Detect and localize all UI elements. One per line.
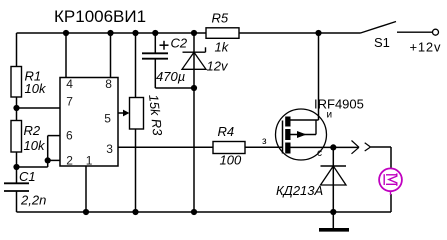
body line with P-channel arrow [291,134,317,136]
wire pin 1 to ground bus [85,166,87,212]
svg-text:КР1006ВИ1: КР1006ВИ1 [54,7,146,26]
svg-text:с: с [317,148,322,159]
svg-text:5: 5 [104,112,111,126]
wire C2 top lead [154,33,156,53]
channel segment middle [285,129,290,140]
transistor Q1 IRF4905 [262,97,364,161]
wire zener vertical branch [193,33,195,212]
wire pin6/pin2 vertical tie [47,136,49,167]
wire pin 8 to top bus [110,33,112,78]
svg-text:1k: 1k [215,40,230,55]
node R1/R2/pin7 [13,105,19,111]
svg-text:4: 4 [66,77,73,91]
svg-text:470µ: 470µ [156,69,185,84]
capacitor C2 electrolytic [142,36,188,85]
wire C1 bottom lead to ground bus [16,191,18,212]
wire pin 2 stub [48,159,60,161]
svg-text:R4: R4 [218,124,235,139]
zener diode VD1 12v [182,47,229,73]
node R3/ground [132,209,138,215]
switch S1 [361,22,439,51]
resistor R4 [213,124,245,168]
node source/bus [315,30,321,36]
wire pin 5 to R3 wiper [118,112,126,114]
capacitor C1 [4,169,46,208]
wire bottom ground bus [17,211,392,213]
svg-text:+12v: +12v [410,40,442,55]
wire connector to motor [370,147,392,169]
wire motor bottom to ground bus [390,194,392,212]
node R2/C1 [13,164,19,170]
wire pin 3 to R4 and gate [118,146,283,148]
node pin8/bus [107,30,113,36]
svg-text:2: 2 [66,153,73,167]
motor M1 [379,168,402,195]
svg-text:12v: 12v [207,59,229,74]
node pin2/pin6 [45,157,51,163]
wire C2 to zener node [155,87,194,89]
resistor R2 [11,121,46,154]
node zener/bus [191,30,197,36]
connector X1 socket [365,143,370,151]
wire R1 bottom to R2 top [16,97,18,121]
node C2/zener [191,85,197,91]
node diode/ground [330,209,336,215]
svg-text:100: 100 [220,153,242,168]
svg-text:S1: S1 [374,35,390,50]
wire drain to connector [291,146,360,148]
svg-text:7: 7 [66,95,73,109]
svg-text:8: 8 [105,77,112,91]
gate bar [282,121,284,154]
node pin1/ground [83,209,89,215]
wire drain node vertical to diode and ground [332,147,334,212]
svg-text:КД213А: КД213А [276,183,323,198]
node pin4/bus [63,30,69,36]
wire R2 bottom to C1 [16,152,18,183]
svg-text:2,2n: 2,2n [20,193,46,208]
potentiometer R3 [123,94,165,137]
op-amp U1 timer КР1006ВИ1 [54,7,146,167]
resistor R5 [206,11,239,55]
svg-text:и: и [327,110,333,121]
connector X1 plug arrow [352,141,360,154]
svg-text:C1: C1 [19,169,36,184]
wire pin 4 to top bus [65,33,67,78]
wire source of Q1 to bus [318,33,320,120]
svg-text:3: 3 [106,142,113,156]
wire C2 bottom lead [154,59,156,88]
node zener/ground [191,209,197,215]
wire R3 top to supply bus [135,33,137,98]
source internal line [291,119,319,121]
node +12v terminal label [410,40,442,55]
node drain/diode [330,144,336,150]
svg-text:з: з [262,136,267,147]
wire tie to R2/C1 node [17,166,48,168]
diode VD2 КД213А [276,166,346,198]
channel segment top [285,117,290,127]
wire top supply bus [17,32,361,34]
svg-text:R2: R2 [24,123,41,138]
wire R3 bottom to ground bus [135,129,137,212]
wire pin 7 to R1/R2 junction [17,107,61,109]
wire left vertical from top bus to R1 [16,33,18,67]
svg-text:IRF4905: IRF4905 [314,97,364,112]
svg-text:6: 6 [66,128,73,142]
svg-text:10k: 10k [25,81,47,96]
channel segment bottom [285,143,290,154]
node R3/bus [132,30,138,36]
wire pin 6 stub [48,135,60,137]
svg-text:C2: C2 [171,36,188,51]
svg-text:1: 1 [86,153,93,167]
svg-text:R5: R5 [212,11,229,26]
node C2/bus [152,30,158,36]
resistor R1 [11,67,47,98]
ground [319,228,349,232]
svg-text:10k: 10k [24,138,46,153]
wire ground symbol lead [332,212,334,229]
